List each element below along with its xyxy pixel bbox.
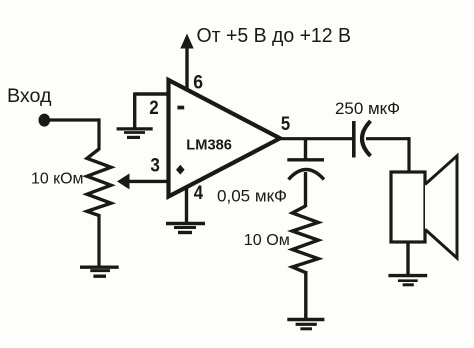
wire down to speaker xyxy=(407,137,410,173)
wire speaker to ground xyxy=(406,242,409,275)
inverting input minus sign xyxy=(177,106,184,110)
svg-text:4: 4 xyxy=(194,183,204,204)
svg-text:250 мкФ: 250 мкФ xyxy=(335,100,400,118)
wire bend down to potentiometer top xyxy=(97,118,100,150)
wire input dot to bend xyxy=(45,118,100,121)
svg-text:5: 5 xyxy=(281,114,291,135)
ground (speaker) xyxy=(388,276,427,285)
input terminal dot xyxy=(39,114,51,127)
svg-text:0,05 мкФ: 0,05 мкФ xyxy=(217,188,287,206)
capacitor C1 250мкФ curved plate xyxy=(362,121,371,156)
wire C2 to resistor R2 xyxy=(304,172,307,207)
wiper arrow into potentiometer (pin 3) xyxy=(117,173,167,189)
svg-text:Вход: Вход xyxy=(7,85,52,107)
pin 2 wire vertical down xyxy=(133,92,136,128)
capacitor C2 0,05мкФ curved plate xyxy=(289,170,325,180)
svg-text:2: 2 xyxy=(149,98,159,119)
svg-text:LM386: LM386 xyxy=(186,136,232,153)
svg-text:10 кОм: 10 кОм xyxy=(31,171,84,188)
svg-text:10 Ом: 10 Ом xyxy=(244,232,290,249)
wire potentiometer bottom to ground xyxy=(97,214,100,267)
wire R2 to ground xyxy=(304,271,307,319)
pin 4 wire down from triangle xyxy=(185,187,188,223)
ground (R2) xyxy=(287,320,324,329)
svg-text:3: 3 xyxy=(150,156,160,177)
op-amp U1 LM386 triangle xyxy=(169,80,281,197)
speaker driver rectangle xyxy=(391,172,425,242)
ground (pin 2) xyxy=(117,129,153,138)
svg-text:6: 6 xyxy=(193,73,203,94)
pin 2 wire from triangle to ground loop xyxy=(135,92,169,95)
ground (potentiometer) xyxy=(80,267,119,276)
svg-text:От +5 В до +12 В: От +5 В до +12 В xyxy=(197,25,352,47)
junction stub to capacitor C2 xyxy=(304,139,307,159)
pin 6 wire up from triangle xyxy=(185,46,188,91)
non-inverting input diamond marker xyxy=(176,165,185,175)
potentiometer R1 zigzag xyxy=(87,149,111,216)
ground (pin 4) xyxy=(166,224,205,233)
power supply arrowhead xyxy=(180,34,193,49)
capacitor C2 0,05мкФ top plate xyxy=(287,158,324,161)
capacitor C1 250мкФ left plate xyxy=(352,121,356,158)
resistor R2 zigzag 10 Ом xyxy=(292,206,318,273)
output wire pin 5 to capacitor C1 xyxy=(278,137,353,140)
wire C1 to speaker corner xyxy=(366,137,409,140)
speaker horn cone xyxy=(425,156,457,258)
